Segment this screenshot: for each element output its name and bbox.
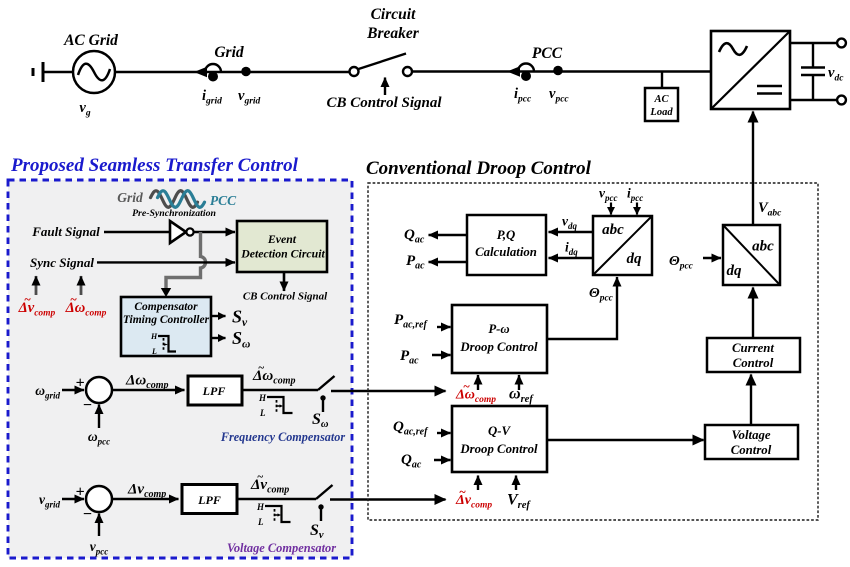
label delta v comp (red) (18, 292, 56, 319)
svg-text:vg: vg (79, 100, 90, 119)
svg-text:vpcc: vpcc (549, 86, 569, 105)
svg-text:vpcc: vpcc (599, 186, 618, 204)
compensator timing controller box (121, 297, 211, 356)
svg-text:Circuit: Circuit (371, 6, 416, 23)
svg-text:LPF: LPF (202, 384, 226, 398)
svg-text:Timing Controller: Timing Controller (123, 314, 210, 326)
arrow Q_ac in (434, 459, 451, 461)
arrow v_dq (549, 231, 594, 233)
svg-text:Proposed Seamless Transfer Con: Proposed Seamless Transfer Control (10, 155, 299, 176)
svg-text:ipcc: ipcc (514, 86, 532, 105)
arrow Q_ac out (429, 234, 468, 236)
AC source vg (73, 51, 115, 93)
svg-text:~: ~ (459, 485, 466, 499)
gray junction arrowhead (161, 288, 171, 297)
wire P-omega droop to abc-dq (547, 277, 617, 339)
svg-text:PCC: PCC (210, 193, 237, 208)
svg-text:Qac: Qac (401, 452, 422, 471)
svg-text:Frequency Compensator: Frequency Compensator (220, 430, 346, 444)
svg-text:Pre-Synchronization: Pre-Synchronization (132, 208, 216, 219)
arrow CB control signal down (283, 272, 286, 291)
svg-text:ωref: ωref (509, 386, 534, 406)
svg-text:Event: Event (267, 232, 297, 246)
label delta omega comp red droop (455, 379, 496, 405)
svg-text:CB Control Signal: CB Control Signal (326, 95, 442, 111)
arrow P_ac,ref in (437, 326, 451, 328)
svg-text:ipcc: ipcc (627, 186, 643, 204)
svg-text:PCC: PCC (532, 45, 563, 62)
svg-text:Grid: Grid (117, 190, 143, 205)
svg-text:Calculation: Calculation (475, 245, 537, 259)
svg-text:vgrid: vgrid (238, 88, 261, 107)
arrow delta v comp into Q-V (477, 476, 479, 491)
svg-text:Sync Signal: Sync Signal (30, 255, 94, 270)
arrow current control to dq-abc (752, 288, 754, 339)
label delta v comp red droop (455, 485, 492, 511)
svg-text:L: L (151, 347, 157, 356)
dq-abc transform box (723, 225, 780, 285)
abc-dq transform box (593, 216, 652, 275)
svg-text:abc: abc (602, 222, 624, 238)
svg-text:Droop Control: Droop Control (459, 442, 538, 456)
svg-text:~: ~ (24, 292, 31, 306)
arrow v_pcc into abc-dq (610, 203, 612, 215)
circuit breaker (350, 54, 413, 77)
svg-text:Voltage Compensator: Voltage Compensator (227, 541, 336, 555)
wire AC source to circuit breaker (115, 71, 350, 73)
arrow S_v out (211, 315, 226, 317)
P-omega droop control box (452, 305, 547, 373)
arrow voltage control to current control (750, 375, 752, 426)
svg-text:Conventional Droop Control: Conventional Droop Control (366, 158, 592, 179)
svg-text:+: + (75, 484, 84, 501)
svg-text:L: L (257, 517, 264, 527)
ground (33, 62, 43, 82)
proposed panel frame (8, 180, 352, 558)
dc terminal bottom (837, 96, 846, 105)
svg-text:Compensator: Compensator (134, 301, 198, 313)
timing glyph in controller (150, 332, 176, 356)
svg-text:CB Control Signal: CB Control Signal (243, 291, 328, 303)
svg-text:abc: abc (752, 239, 774, 255)
inverter U1 (711, 31, 790, 109)
timing glyph volt switch (256, 502, 291, 527)
svg-text:Grid: Grid (214, 44, 244, 61)
arrow omega_ref into P-omega (518, 375, 520, 390)
switch S_v blade (316, 485, 333, 499)
svg-text:Detection Circuit: Detection Circuit (240, 247, 325, 261)
current sensor i_grid (194, 64, 221, 82)
dc terminal top (837, 39, 846, 48)
svg-text:+: + (75, 375, 84, 392)
pcc sine wave (teal) (158, 191, 205, 208)
svg-text:−: − (83, 397, 93, 414)
LPF box freq (188, 376, 242, 405)
svg-text:igrid: igrid (202, 88, 222, 107)
wire circuit breaker to inverter (412, 70, 711, 72)
svg-text:Load: Load (649, 107, 673, 118)
svg-text:vdc: vdc (828, 65, 844, 84)
arrow P_ac in (432, 354, 451, 356)
svg-text:~: ~ (70, 292, 77, 306)
svg-text:−: − (83, 506, 93, 523)
AC load box (645, 88, 678, 121)
svg-text:Control: Control (733, 356, 774, 370)
arrow V_ref into Q-V (515, 476, 517, 491)
svg-text:dq: dq (727, 263, 743, 279)
svg-text:Vref: Vref (507, 492, 531, 512)
svg-text:Current: Current (732, 341, 774, 355)
svg-text:Δωcomp: Δωcomp (455, 388, 496, 406)
NOT gate (170, 221, 194, 243)
wire omega_pcc up (98, 405, 100, 429)
droop panel frame (368, 183, 818, 520)
svg-text:~: ~ (463, 379, 470, 393)
current control box (707, 338, 800, 372)
current sensor i_pcc (507, 64, 534, 82)
wire omega_grid to summer (62, 389, 84, 391)
node v_pcc (553, 66, 563, 76)
arrow P_ac out (429, 261, 468, 263)
arrow i_dq (549, 257, 594, 259)
svg-text:dq: dq (627, 251, 643, 267)
label Circuit Breaker (366, 6, 420, 42)
svg-text:Pac,ref: Pac,ref (394, 312, 428, 331)
svg-text:Voltage: Voltage (731, 428, 770, 442)
svg-text:~: ~ (258, 362, 265, 374)
wire NOT gate to event box (194, 231, 235, 233)
arrow i_pcc into abc-dq (636, 203, 638, 215)
summing junction volt (86, 486, 112, 512)
svg-text:idq: idq (565, 240, 578, 258)
svg-text:Pac: Pac (400, 348, 419, 367)
svg-text:P-ω: P-ω (488, 322, 509, 336)
svg-text:H: H (150, 332, 158, 341)
wire LPF to switch volt (237, 498, 316, 500)
svg-text:Vabc: Vabc (758, 200, 782, 219)
event detection circuit box (237, 221, 327, 272)
wire fault signal to NOT gate (104, 231, 169, 233)
svg-text:L: L (259, 408, 266, 418)
svg-text:Θpcc: Θpcc (589, 286, 614, 304)
svg-text:Pac: Pac (406, 253, 425, 272)
label delta v comp tilde (250, 471, 289, 496)
arrow Q_ac,ref in (437, 432, 451, 434)
label delta omega comp (red) (65, 292, 107, 319)
wire stub to AC load (661, 72, 663, 89)
timing glyph freq switch (258, 393, 293, 418)
wire V_abc to inverter (752, 112, 754, 226)
summing junction freq (86, 377, 112, 403)
svg-text:AC: AC (653, 94, 669, 105)
svg-text:Droop Control: Droop Control (459, 340, 538, 354)
switch S_v stem (318, 504, 323, 521)
svg-text:H: H (256, 502, 265, 512)
svg-text:Fault Signal: Fault Signal (31, 224, 100, 239)
wire switch to droop (volt) (330, 498, 446, 500)
svg-text:H: H (258, 393, 267, 403)
node v_grid (241, 67, 251, 77)
arrow dv_comp up (35, 276, 38, 295)
svg-text:LPF: LPF (197, 493, 221, 507)
svg-text:Control: Control (731, 443, 772, 457)
svg-text:Qac: Qac (404, 227, 425, 246)
arrow S_omega out (211, 337, 226, 339)
svg-text:Θpcc: Θpcc (669, 254, 694, 272)
capacitor C_dc (801, 43, 825, 100)
wire Q-V droop to voltage control (547, 439, 704, 441)
wire v_grid to summer (62, 498, 84, 500)
wire summer to LPF freq (112, 389, 185, 391)
svg-text:Breaker: Breaker (366, 25, 420, 42)
wire v_pcc up (98, 514, 100, 537)
voltage control box (705, 425, 798, 459)
svg-text:~: ~ (257, 471, 264, 483)
svg-text:vdq: vdq (562, 214, 578, 232)
wire ground to AC source (44, 71, 73, 73)
wire LPF to switch freq (242, 389, 318, 391)
wire summer to LPF volt (112, 498, 179, 500)
switch S_omega blade (318, 376, 335, 390)
wire switch to droop (freq) (331, 390, 446, 392)
arrow dw_comp up (80, 276, 83, 295)
PQ calculation box (467, 215, 546, 275)
wire sync signal to event box (97, 261, 235, 263)
wire dc bottom (790, 99, 837, 101)
grid sine wave (gray) (151, 191, 198, 208)
CB control arrow (384, 78, 386, 96)
svg-text:P,Q: P,Q (497, 228, 516, 242)
switch S_omega stem (320, 395, 325, 412)
arrow theta_pcc into dq-abc (703, 257, 721, 259)
LPF box volt (182, 485, 237, 514)
svg-text:AC Grid: AC Grid (63, 32, 118, 49)
Q-V droop control box (452, 406, 547, 472)
gray junction wire with hop (166, 232, 206, 288)
label delta omega comp tilde (252, 362, 295, 387)
arrow delta omega comp into P-omega (477, 375, 479, 390)
wire dc top (790, 42, 837, 44)
svg-text:Q-V: Q-V (488, 424, 512, 438)
svg-text:Qac,ref: Qac,ref (393, 419, 429, 438)
